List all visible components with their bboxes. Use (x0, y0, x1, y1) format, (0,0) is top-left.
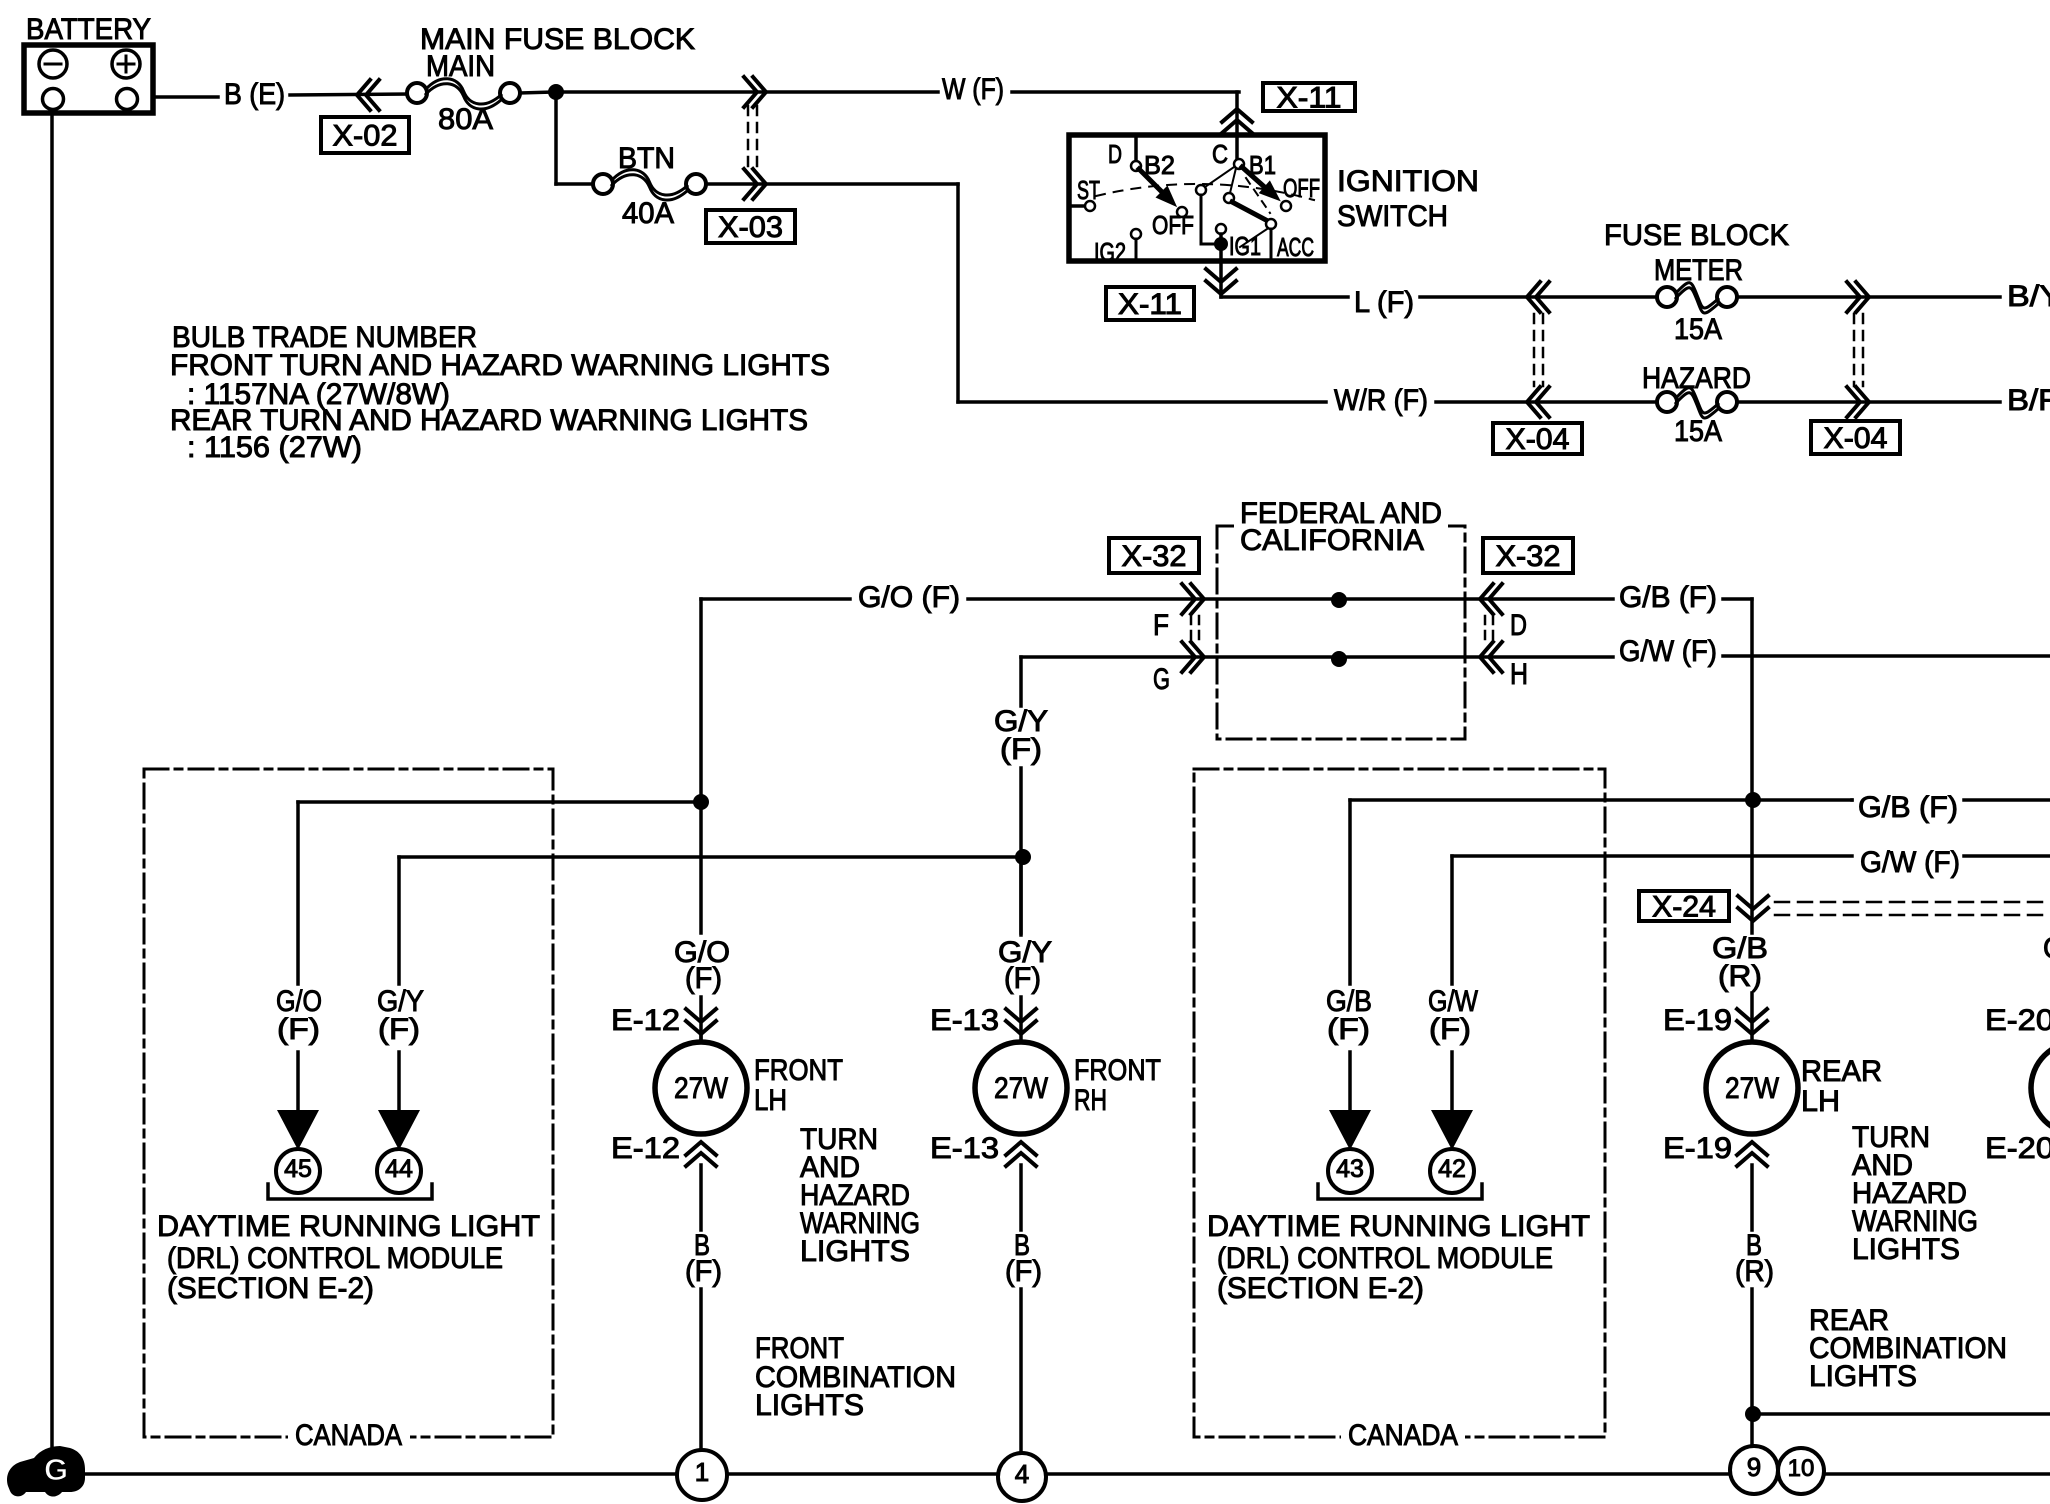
bulb front LH 27W (655, 1042, 747, 1134)
connector X-02 label (321, 117, 409, 153)
module pin44 arrow (378, 1110, 420, 1150)
svg-text:(F): (F) (277, 1013, 320, 1046)
connector X-04 dashed link right (1853, 314, 1856, 386)
wire hazard fuse to B/R (1737, 400, 2000, 404)
svg-text:G: G (44, 1452, 68, 1487)
canada box left (144, 769, 553, 1437)
bulb rear LH 27W (1706, 1042, 1798, 1134)
ignition pin B2 (1131, 161, 1141, 171)
svg-text:W (F): W (F) (942, 73, 1004, 106)
svg-text:(F): (F) (685, 962, 722, 995)
svg-text:D: D (1510, 609, 1527, 642)
svg-text:44: 44 (385, 1155, 413, 1183)
ignition switch rotary arc dashed (1096, 184, 1314, 200)
wire IG1 down out of switch (1219, 234, 1223, 297)
svg-text:LIGHTS: LIGHTS (1852, 1233, 1960, 1266)
wire G/B(F) to corner (1723, 597, 1752, 601)
svg-text:27W: 27W (674, 1072, 729, 1105)
svg-text:DAYTIME RUNNING LIGHT: DAYTIME RUNNING LIGHT (1207, 1210, 1590, 1243)
wire L(F) to fuse block (1420, 295, 1659, 299)
connector X-24 label (1639, 891, 1729, 921)
svg-text:E-12: E-12 (611, 1004, 680, 1037)
svg-text:ACC: ACC (1277, 232, 1314, 262)
junction federal G/H (1331, 651, 1347, 667)
ignition lever B2-OFF (1139, 169, 1166, 196)
wire battery positive to B(E) (153, 95, 218, 99)
wire LH bulb down (699, 1165, 703, 1230)
svg-text:10: 10 (1788, 1455, 1815, 1482)
svg-text:HAZARD: HAZARD (1642, 362, 1751, 395)
svg-text:(SECTION E-2): (SECTION E-2) (1217, 1272, 1424, 1305)
bulb rear RH 27W (2031, 1042, 2050, 1134)
wire G/B dot to label (1753, 798, 1852, 802)
svg-text:CANADA: CANADA (295, 1419, 402, 1452)
connector X-04 label left (1493, 423, 1582, 454)
svg-text:E-19: E-19 (1663, 1132, 1732, 1165)
wire G/W(F) to right edge (1723, 654, 2050, 658)
ignition junction IG1 (1214, 237, 1228, 251)
ignition pin OFF left (1177, 207, 1187, 217)
junction rear branch (1745, 1406, 1761, 1422)
ignition switch box (1069, 135, 1325, 261)
svg-text:LIGHTS: LIGHTS (800, 1235, 910, 1268)
module pin45 arrow (277, 1110, 319, 1150)
svg-text:CALIFORNIA: CALIFORNIA (1240, 524, 1424, 557)
connector X-02 chevron (357, 80, 370, 110)
svg-text:43: 43 (1336, 1155, 1364, 1183)
bus circle 10 (1778, 1448, 1824, 1494)
svg-text:(F): (F) (1004, 962, 1041, 995)
svg-text:(R): (R) (1735, 1255, 1774, 1288)
svg-text:E-20: E-20 (1985, 1004, 2050, 1037)
connector X-32 chevron G (1191, 642, 1204, 672)
connector X-04 right chevron top (1856, 282, 1869, 312)
wire L(F) horizontal (1221, 295, 1348, 299)
svg-text:B/R: B/R (2007, 384, 2050, 417)
wire W/R to fuse block (1436, 400, 1659, 404)
svg-text:(R): (R) (1718, 960, 1762, 993)
wire BTN branch to fuse (556, 182, 594, 186)
svg-text:FUSE BLOCK: FUSE BLOCK (1604, 219, 1789, 252)
svg-text:BATTERY: BATTERY (26, 13, 151, 46)
svg-text:D: D (1108, 139, 1122, 169)
bulb front RH 27W (975, 1042, 1067, 1134)
svg-text:FRONT: FRONT (754, 1054, 843, 1087)
svg-text:(F): (F) (378, 1013, 420, 1046)
svg-text:15A: 15A (1674, 313, 1722, 346)
wire B(E) to main fuse (290, 94, 409, 95)
svg-text:DAYTIME RUNNING LIGHT: DAYTIME RUNNING LIGHT (157, 1210, 540, 1243)
wire rear LH upper (1750, 993, 1754, 1042)
wire rear LH to junction (1750, 1289, 1754, 1448)
wire G/O branch to module (298, 800, 701, 804)
svg-text:X-03: X-03 (718, 211, 783, 244)
wire W/R horizontal (958, 400, 1326, 404)
svg-text:E-13: E-13 (930, 1004, 999, 1037)
ignition thin ACC to IG1 (1240, 229, 1267, 247)
svg-text:G/O (F): G/O (F) (858, 581, 960, 614)
connector X-11 bottom chevron (1206, 269, 1236, 282)
svg-text:ST: ST (1077, 175, 1100, 205)
wire meter fuse to B/Y (1737, 295, 2000, 299)
ignition thin B1 to mid pin (1230, 168, 1236, 193)
junction G/O branch (693, 794, 709, 810)
connector X-04 right chevron bottom (1856, 387, 1869, 417)
svg-text:L (F): L (F) (1354, 286, 1414, 319)
wire front LH upper (699, 997, 703, 1042)
connector X-11 top label (1263, 83, 1355, 111)
svg-text:G/B (F): G/B (F) (1858, 791, 1958, 824)
connector X-24 chevron (1738, 896, 1768, 909)
connector X-24 dashed lines (1775, 901, 2050, 904)
bottom ground bus (84, 1472, 2050, 1476)
connector X-03 chevron bottom (753, 169, 766, 199)
connector X-32 label right (1483, 538, 1573, 573)
svg-text:(SECTION E-2): (SECTION E-2) (167, 1272, 374, 1305)
svg-text:SWITCH: SWITCH (1337, 200, 1448, 233)
svg-text:LIGHTS: LIGHTS (755, 1389, 864, 1422)
ignition pin IG1 (1216, 224, 1226, 234)
wire battery negative to ground (50, 110, 54, 1452)
wire G/Y(F) federal run (1021, 655, 1613, 659)
svg-text:H: H (1510, 658, 1528, 691)
wire rear vertical from G/B corner (1750, 599, 1754, 933)
svg-text:W/R (F): W/R (F) (1334, 384, 1428, 417)
svg-text:E-12: E-12 (611, 1132, 680, 1165)
wire module pin42 vertical (1450, 856, 1454, 984)
wire G/O vertical upper (699, 599, 703, 933)
wire BTN branch down (554, 92, 558, 184)
bus circle 9 (1730, 1446, 1778, 1494)
svg-text:RH: RH (1074, 1084, 1107, 1117)
wire RH bulb down (1019, 1165, 1023, 1230)
wire G/B(F) label to edge (1850, 798, 1854, 802)
module bracket left (268, 1184, 432, 1199)
ignition low pin wire (1196, 185, 1206, 195)
svg-text:G/W (F): G/W (F) (1860, 846, 1960, 879)
wire module pin43 vertical (1348, 800, 1352, 984)
wire W(F) main run (556, 90, 938, 94)
ignition switch dashed B1-ACC (1246, 178, 1270, 213)
svg-text:OFF: OFF (1152, 210, 1194, 240)
ground symbol G (7, 1446, 85, 1497)
ignition pin ST (1069, 204, 1085, 208)
connector X-32 dashed link right (1484, 616, 1487, 642)
svg-text:(DRL) CONTROL MODULE: (DRL) CONTROL MODULE (167, 1242, 503, 1275)
svg-text:E-20: E-20 (1985, 1132, 2050, 1165)
svg-text:1: 1 (695, 1457, 709, 1487)
wire W/R vertical (956, 184, 960, 402)
connector X-32 chevron D (1480, 584, 1493, 614)
wire G/W branch (1452, 854, 1852, 858)
ignition lever B1-OFF (1242, 167, 1269, 191)
federal and california box (1217, 526, 1465, 739)
svg-text:X-11: X-11 (1118, 288, 1182, 321)
wire module pin45 vertical (296, 802, 300, 984)
wire front RH upper (1019, 857, 1023, 933)
svg-text:FRONT: FRONT (1074, 1054, 1161, 1087)
svg-text:X-02: X-02 (333, 120, 398, 153)
ignition thin B1 to low pin (1205, 167, 1234, 187)
svg-text:G: G (1153, 663, 1170, 696)
svg-text:27W: 27W (1725, 1072, 1780, 1105)
ignition pin OFF right (1281, 201, 1291, 211)
svg-text:27W: 27W (994, 1072, 1049, 1105)
svg-text:(F): (F) (685, 1255, 722, 1288)
svg-text:(DRL) CONTROL MODULE: (DRL) CONTROL MODULE (1217, 1242, 1553, 1275)
connector X-04 left chevron top (1527, 282, 1540, 312)
connector X-32 dashed link left (1190, 616, 1193, 642)
svg-text:IG2: IG2 (1094, 237, 1126, 267)
svg-text:X-11: X-11 (1277, 82, 1342, 115)
connector X-11 top chevron (1222, 109, 1252, 122)
svg-text:IG1: IG1 (1229, 231, 1261, 261)
wire fuse to junction (520, 92, 552, 93)
svg-text:REAR: REAR (1801, 1055, 1882, 1088)
wire RH to circle 4 (1019, 1289, 1023, 1454)
wire G/O(F) to federal box (968, 597, 1613, 601)
svg-text:E-13: E-13 (930, 1132, 999, 1165)
wire G/Y branch to module (399, 855, 1023, 859)
svg-text:MAIN: MAIN (426, 50, 495, 83)
wire rear LH bulb down (1750, 1165, 1754, 1230)
svg-text:80A: 80A (438, 103, 493, 136)
connector X-32 chevron F (1191, 584, 1204, 614)
svg-text:E-19: E-19 (1663, 1004, 1732, 1037)
svg-text:LIGHTS: LIGHTS (1809, 1360, 1917, 1393)
svg-text:(F): (F) (1429, 1013, 1471, 1046)
ignition pin ACC (1266, 219, 1276, 229)
svg-text:G/B (F): G/B (F) (1619, 581, 1717, 614)
connector X-03 dashed link (747, 106, 750, 168)
ignition pin D stub (1134, 135, 1138, 161)
svg-text:X-32: X-32 (1122, 540, 1187, 573)
svg-text:45: 45 (284, 1155, 312, 1183)
module pin 42 (1430, 1149, 1474, 1193)
wire G/O(F) from corner (701, 597, 850, 601)
ignition pin IG2 (1131, 229, 1141, 239)
svg-text:CANADA: CANADA (1348, 1419, 1458, 1452)
junction G/B right (1745, 792, 1761, 808)
svg-text:METER: METER (1654, 254, 1743, 287)
svg-text:(F): (F) (1327, 1013, 1370, 1046)
wire LH to circle 1 (699, 1289, 703, 1452)
svg-text:B (E): B (E) (224, 78, 285, 111)
wire to RH bulb (1019, 997, 1023, 1042)
module pin 44 (377, 1149, 421, 1193)
svg-text:: 1156 (27W): : 1156 (27W) (187, 431, 362, 464)
module pin43 arrow (1329, 1110, 1371, 1150)
svg-text:40A: 40A (622, 197, 674, 230)
svg-text:X-24: X-24 (1652, 891, 1716, 924)
ignition pin B1 (1234, 159, 1244, 169)
connector X-32 chevron H (1480, 642, 1493, 672)
connector X-32 label left (1109, 538, 1199, 573)
svg-text:LH: LH (754, 1084, 787, 1117)
svg-text:OFF: OFF (1283, 173, 1320, 203)
wire to LH bulb (699, 1036, 703, 1042)
ignition lever mid-ACC (1232, 202, 1266, 220)
module pin42 arrow (1431, 1110, 1473, 1150)
svg-text:X-04: X-04 (1824, 422, 1888, 455)
wire module pin44 vertical (397, 857, 401, 984)
connector X-04 left chevron bottom (1527, 387, 1540, 417)
svg-text:42: 42 (1438, 1155, 1466, 1183)
svg-text:4: 4 (1015, 1459, 1029, 1489)
connector X-03 chevron top (753, 77, 766, 107)
connector X-03 label (706, 210, 795, 243)
canada box right (1194, 769, 1605, 1437)
module pin 43 (1328, 1149, 1372, 1193)
svg-text:X-04: X-04 (1506, 423, 1570, 456)
svg-text:G/W (F): G/W (F) (1619, 635, 1717, 668)
wire rear branch to edge (1753, 1412, 2050, 1416)
svg-text:F: F (1153, 609, 1169, 642)
connector X-04 dashed link left (1533, 314, 1536, 386)
module pin 45 (276, 1149, 320, 1193)
ignition mid pin (1224, 193, 1234, 203)
svg-text:C: C (1212, 139, 1228, 169)
wire G/B branch (1350, 798, 1745, 802)
svg-text:(F): (F) (1005, 1255, 1042, 1288)
svg-text:B/Y: B/Y (2007, 280, 2050, 313)
module bracket right (1318, 1184, 1482, 1199)
connector X-04 label right (1811, 421, 1900, 454)
wire G/W(F) label to edge (1964, 854, 2050, 858)
svg-text:15A: 15A (1674, 415, 1722, 448)
connector X-11 bottom label (1106, 287, 1194, 320)
wire W(F) down to switch (1235, 92, 1239, 160)
svg-text:9: 9 (1747, 1452, 1761, 1482)
bus circle 1 (677, 1450, 727, 1500)
svg-text:LH: LH (1801, 1085, 1840, 1118)
junction federal F/D (1331, 592, 1347, 608)
wire BTN fuse to corner (706, 182, 958, 186)
svg-text:(F): (F) (1000, 733, 1042, 766)
wire G/Y vertical upper (1019, 657, 1023, 706)
svg-text:IGNITION: IGNITION (1337, 165, 1479, 198)
junction G/Y branch (1015, 849, 1031, 865)
bus circle 4 (998, 1453, 1046, 1501)
junction node main/BTN (548, 84, 564, 100)
svg-text:X-32: X-32 (1496, 540, 1561, 573)
